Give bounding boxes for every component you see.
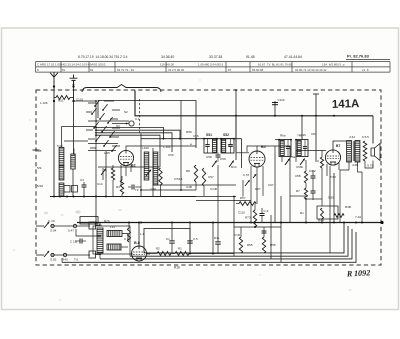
svg-text:L.106: L.106 — [40, 101, 48, 105]
filter capacitor C1 — [169, 240, 175, 242]
svg-text:T2: T2 — [135, 188, 139, 192]
grid resistor R68 vertical — [320, 157, 323, 168]
loop antenna frame upper — [76, 229, 101, 236]
svg-text:S51: S51 — [206, 133, 212, 137]
wire x96 column — [95, 101, 97, 197]
svg-text:C81: C81 — [311, 132, 317, 136]
svg-text:21 8: 21 8 — [362, 68, 369, 72]
long vertical wire x141 — [140, 134, 142, 197]
wire x316 feed — [315, 94, 317, 160]
osc trimmer C57 — [146, 170, 151, 176]
switch wiring stubs — [86, 103, 96, 148]
wire x290 column — [289, 152, 291, 196]
capacitor C11L — [215, 241, 221, 243]
svg-text:Rn: Rn — [300, 211, 304, 215]
return wire loop 2 — [130, 226, 348, 256]
svg-text:C119: C119 — [278, 98, 285, 102]
svg-text:C020: C020 — [72, 148, 76, 155]
svg-text:C.9: C.9 — [264, 209, 269, 213]
IF tank S51 winding — [213, 139, 217, 152]
svg-text:B7: B7 — [336, 144, 340, 148]
svg-text:R57: R57 — [240, 196, 246, 200]
tube B8 envelope — [132, 246, 147, 261]
resistor R73 vertical — [253, 210, 256, 227]
IF tank S51 capacitor — [205, 144, 210, 146]
wire fuse lower to transformer — [96, 254, 102, 256]
capacitor C83 — [311, 190, 316, 192]
svg-text:33.37.38: 33.37.38 — [209, 55, 222, 59]
cathode bus y206 — [250, 200, 252, 206]
svg-text:Pr. 82.76.83: Pr. 82.76.83 — [347, 54, 370, 59]
svg-text:R44: R44 — [318, 219, 324, 223]
svg-text:R55: R55 — [247, 243, 253, 247]
svg-text:C/82: C/82 — [309, 169, 316, 173]
detector load wire — [289, 196, 291, 223]
wire x229 short — [228, 230, 230, 254]
wire B8 anode to rail — [138, 223, 140, 248]
svg-text:L11: L11 — [110, 225, 115, 229]
mains filter capacitor C10 box — [80, 217, 98, 225]
return wire loop 3 — [100, 229, 352, 259]
speaker — [371, 144, 380, 161]
IF tank 2b box — [296, 140, 308, 157]
detector output wire — [275, 146, 290, 152]
IF tank 2a box — [279, 140, 291, 157]
svg-text:R4: R4 — [116, 185, 120, 189]
wire antenna column down-left — [53, 101, 55, 197]
choke L12 with core — [107, 244, 121, 250]
wire grid feed y101 — [74, 100, 97, 102]
wire under bus — [130, 196, 196, 198]
svg-text:C14: C14 — [97, 182, 103, 186]
capacitor C58b — [262, 230, 267, 232]
wire to padder — [112, 123, 129, 125]
B5 grid wire — [236, 152, 249, 154]
wire under L106 — [72, 169, 74, 197]
power transformer primary winding — [97, 228, 103, 253]
mains upper lead — [51, 225, 90, 227]
return wire loop 4 — [62, 232, 356, 262]
box under switch — [88, 143, 118, 145]
resistor R58b vertical — [304, 171, 307, 183]
resistor R44 horizontal — [334, 214, 344, 218]
svg-text:S3: S3 — [116, 124, 120, 128]
svg-text:C4: C4 — [80, 178, 84, 182]
aerial coil L103 top — [59, 148, 64, 166]
IFT2 top wire — [275, 139, 279, 141]
heater wires — [122, 234, 128, 241]
wire x218 from IFT area — [217, 165, 219, 230]
svg-text:S52: S52 — [223, 133, 229, 137]
svg-text:5/9: 5/9 — [37, 166, 42, 170]
wire x356 from speaker area — [355, 223, 357, 233]
secondary winding 2 — [363, 141, 367, 161]
wire coil column to switch y141 — [64, 140, 88, 142]
padding capacitor C12 label — [131, 185, 133, 190]
svg-text:119. H0.00: 119. H0.00 — [160, 63, 174, 67]
bottom bus of RF section — [50, 196, 130, 198]
svg-text:S2: S2 — [124, 110, 128, 114]
wire x302 screen feed — [301, 116, 303, 140]
svg-text:B5: B5 — [261, 145, 266, 149]
wire from transformer down — [348, 162, 350, 170]
detector switch arrows — [285, 159, 290, 166]
rail junction dots — [235, 115, 237, 117]
header table rule middle — [36, 66, 391, 68]
wire y121 to padder — [96, 120, 129, 122]
coil L106 — [71, 154, 75, 169]
B5 electrode arrow — [253, 174, 256, 178]
resistor R51 — [56, 96, 70, 100]
fuse box lower — [89, 251, 96, 258]
svg-text:87: 87 — [228, 68, 232, 72]
svg-text:L.1: L.1 — [140, 232, 145, 236]
svg-text:a: a — [190, 142, 192, 146]
B7 plate to transformer — [333, 141, 346, 150]
AVC resistor R8 — [194, 165, 197, 182]
bundle start dots — [95, 127, 97, 129]
svg-text:R2: R2 — [156, 247, 160, 251]
svg-text:C.6: C.6 — [124, 237, 129, 241]
svg-text:C60: C60 — [151, 187, 157, 191]
svg-text:C4B: C4B — [186, 185, 192, 189]
svg-text:R56: R56 — [186, 130, 192, 134]
capacitor C73 — [260, 213, 265, 215]
screen bus horizontal — [141, 189, 196, 191]
resistor R55 vertical — [239, 237, 242, 253]
rail dots — [95, 222, 97, 224]
svg-text:D1L: D1L — [214, 236, 220, 240]
svg-text:R16: R16 — [174, 266, 180, 270]
svg-text:C.57: C.57 — [243, 173, 250, 177]
tube B5 envelope — [249, 151, 265, 167]
svg-text:L.101: L.101 — [163, 145, 171, 149]
svg-text:R 1092: R 1092 — [346, 268, 371, 278]
wire x213 column — [212, 230, 214, 254]
svg-text:R6a: R6a — [280, 134, 286, 138]
choke L11 — [107, 231, 122, 237]
vertical wire x106 — [105, 151, 107, 197]
switch arrows under IFT1 — [212, 161, 217, 168]
mixer plate wire — [126, 146, 196, 150]
svg-text:47.41.44.64: 47.41.44.64 — [284, 55, 302, 59]
wire bundle row 3 — [96, 133, 172, 152]
B7 pin wires — [326, 164, 328, 176]
mains lower lead — [51, 254, 90, 256]
ganged tuning dashed linkage — [139, 99, 141, 133]
grid rail y139 — [141, 138, 242, 140]
B+ rail corner wire — [135, 91, 373, 116]
output transformer secondary — [355, 141, 360, 163]
svg-text:1.09.480 5.04 (83.5: 1.09.480 5.04 (83.5 — [198, 63, 223, 67]
svg-text:C110: C110 — [238, 211, 245, 215]
trimmer box Cb — [72, 186, 78, 193]
svg-text:R7b: R7b — [104, 219, 110, 223]
svg-text:C.1: C.1 — [135, 117, 140, 121]
output transformer primary — [347, 141, 352, 163]
wire x236 down to IF — [235, 116, 237, 160]
svg-text:R4B: R4B — [345, 205, 351, 209]
svg-text:7.46: 7.46 — [300, 133, 306, 137]
wire x275 column — [274, 152, 276, 223]
antenna symbol — [50, 72, 58, 82]
HT filter box — [144, 229, 190, 253]
svg-text:R6: R6 — [315, 159, 319, 163]
vertical wire x271 — [270, 215, 272, 259]
IF tank S52 capacitor — [228, 144, 233, 146]
wire above coil stack — [61, 127, 63, 148]
top stub above B5 — [256, 141, 258, 146]
trimmer C14 oscillator — [101, 169, 106, 175]
HT heavy rail — [77, 222, 382, 224]
svg-text:T.6: T.6 — [74, 258, 78, 262]
svg-text:P6a: P6a — [290, 155, 296, 159]
svg-text:R8: R8 — [186, 169, 190, 173]
svg-text:L100: L100 — [142, 146, 149, 150]
tube B2 envelope — [118, 150, 133, 165]
horizontal wire y227 — [234, 226, 281, 228]
rectifier pin wires — [130, 253, 133, 255]
header table rule top — [36, 61, 391, 63]
long vertical wire x181 — [180, 101, 182, 191]
svg-text:5.50: 5.50 — [330, 175, 336, 179]
svg-text:R40: R40 — [62, 258, 68, 262]
wire x296 drop — [295, 151, 297, 163]
IF feed vertical x241 — [241, 139, 243, 168]
svg-text:C59: C59 — [168, 153, 174, 157]
IF tank corner dots — [203, 138, 205, 140]
svg-text:61.67. 7V. BL.H1 81.79.68: 61.67. 7V. BL.H1 81.79.68 — [258, 63, 292, 67]
svg-text:19A. W2.800 5. p: 19A. W2.800 5. p — [322, 63, 345, 67]
svg-text:R67: R67 — [255, 187, 261, 191]
cathode return wire y167 — [98, 166, 160, 168]
trimmer capacitor C104 — [82, 184, 87, 186]
IF tank 2b capacitor — [303, 146, 307, 148]
oscillator padder circle — [129, 121, 134, 126]
svg-text:C56: C56 — [220, 157, 226, 161]
decoupling capacitor C119 on feed — [274, 101, 276, 116]
svg-text:R1: R1 — [178, 247, 182, 251]
filter capacitor C5 — [187, 240, 193, 242]
wire bundle row 4 — [96, 135, 160, 167]
B5 plate wire — [256, 146, 258, 151]
oscillator coil pack — [144, 152, 149, 180]
return wire loop 1 — [160, 223, 344, 253]
svg-text:5/10: 5/10 — [37, 184, 43, 188]
svg-text:R14: R14 — [231, 165, 237, 169]
heater rail y185 — [153, 184, 236, 186]
grid leak wire — [242, 193, 244, 197]
tube B7 envelope — [325, 150, 340, 165]
svg-text:5.02: 5.02 — [57, 144, 63, 148]
aerial coil L105 bottom — [59, 183, 64, 197]
svg-text:C1R: C1R — [234, 233, 241, 237]
cathode rail y200 — [196, 200, 251, 202]
resistor R7b beside rectifier — [127, 228, 130, 242]
svg-text:C56: C56 — [193, 134, 199, 138]
input terminal tick on border — [33, 149, 40, 151]
svg-text:C56b: C56b — [296, 165, 304, 169]
svg-text:R7a: R7a — [96, 223, 102, 227]
B5 grid top cap loop — [247, 146, 257, 152]
svg-text:141A: 141A — [332, 98, 360, 111]
mains switch S04 upper — [44, 222, 49, 228]
mains switch S02 lower — [44, 251, 49, 257]
tube B2 pin wires — [120, 165, 122, 186]
oscillator coil secondary — [153, 152, 158, 185]
left ends of return wires — [61, 258, 63, 262]
wire x330 column — [329, 166, 331, 253]
svg-text:92.80-71.10 43.43.44.42: 92.80-71.10 43.43.44.42 — [295, 68, 327, 72]
svg-text:C HRD 17.02 1.05 H02 20.14.34.: C HRD 17.02 1.05 H02 20.14.34.0 103 H9A/… — [37, 63, 106, 67]
svg-text:R73: R73 — [245, 216, 251, 220]
IF tank 2a capacitor — [286, 146, 290, 148]
header table column ticks — [36, 62, 391, 73]
svg-text:6.5.5: 6.5.5 — [362, 135, 369, 139]
IF tank S51 box — [204, 139, 217, 154]
svg-text:R7: R7 — [296, 189, 300, 193]
earth column wire — [73, 101, 75, 154]
transformer enclosure box — [93, 226, 130, 254]
IF tank 2b winding — [297, 141, 301, 156]
screen resistor network — [202, 168, 205, 186]
svg-text:81: 81 — [62, 68, 66, 72]
svg-text:34 2 5 96 36: 34 2 5 96 36 — [168, 68, 184, 72]
svg-text:C1: C1 — [166, 237, 170, 241]
resistor R58 vertical — [262, 237, 265, 253]
svg-text:S.02: S.02 — [50, 258, 57, 262]
svg-text:7.4A: 7.4A — [355, 215, 361, 219]
wire x334 column — [333, 173, 335, 223]
svg-text:5.47: 5.47 — [68, 229, 74, 233]
resistor R6 right of coils — [159, 168, 162, 185]
svg-text:C.5: C.5 — [228, 143, 233, 147]
wire coil column to switch y126 — [62, 126, 97, 128]
header table rule bottom — [36, 71, 391, 73]
cathode resistor R4 — [120, 180, 123, 194]
resistor network vertical in box — [321, 208, 324, 219]
svg-text:S.04: S.04 — [50, 229, 57, 233]
svg-text:L/05: L/05 — [104, 151, 110, 155]
svg-text:C58: C58 — [206, 155, 212, 159]
fuse box upper — [89, 222, 96, 229]
vertical wire x281 — [280, 196, 282, 262]
svg-text:C57: C57 — [208, 175, 214, 179]
AVC bus horizontal — [196, 196, 236, 198]
resistor R7 vertical — [304, 188, 307, 199]
wire bundle row 1 — [96, 128, 164, 140]
IF tank S52 box — [221, 139, 234, 154]
svg-text:C/1B: C/1B — [210, 187, 217, 191]
speaker wires — [372, 116, 374, 144]
svg-text:C.10: C.10 — [48, 219, 55, 223]
svg-text:91.48: 91.48 — [246, 55, 255, 59]
chassis dashed border — [36, 90, 381, 265]
svg-text:S.76: S.76 — [367, 164, 374, 168]
svg-text:C.5: C.5 — [193, 237, 198, 241]
ground symbol at input — [70, 75, 78, 85]
transformer core lines — [352, 141, 354, 161]
wire bundle row 2 — [96, 130, 180, 139]
svg-text:5.50: 5.50 — [328, 196, 334, 200]
band switch S1 contact arrows — [91, 100, 117, 152]
svg-text:93 70 73 - 81: 93 70 73 - 81 — [117, 68, 134, 72]
svg-text:65.90.98: 65.90.98 — [252, 68, 264, 72]
scan smudge specks — [13, 59, 392, 301]
overbrace above antenna section — [82, 85, 161, 93]
grid resistor R3 below B2 — [111, 168, 114, 180]
fuse to rail wire — [96, 225, 101, 227]
bias network box — [317, 206, 338, 219]
svg-text:U58: U58 — [295, 174, 301, 178]
junction wires right network — [306, 198, 322, 200]
svg-text:5.79.17.19 14.18.00.34 751 2: 5.79.17.19 14.18.00.34 751 2 3 4 — [78, 55, 128, 59]
vertical wire x234 — [233, 196, 235, 256]
svg-text:R51: R51 — [58, 99, 64, 103]
shield box top wire — [98, 101, 196, 149]
AF coupling wire to B7 grid — [296, 150, 326, 152]
long vertical wire x153 — [152, 148, 154, 197]
wire from ground bus down — [95, 197, 97, 223]
svg-text:4.61: 4.61 — [349, 135, 355, 139]
svg-text:C/51B: C/51B — [174, 177, 182, 181]
IFT2 wires — [281, 157, 283, 163]
wire x236 from chassis top — [235, 90, 237, 152]
svg-text:34.36.40: 34.36.40 — [161, 55, 174, 59]
trimmer box Ca — [64, 186, 70, 193]
svg-text:82: 82 — [90, 68, 94, 72]
IF tank 2a winding — [280, 141, 284, 156]
grid cap C56 — [216, 154, 221, 156]
svg-text:C 111: C 111 — [70, 240, 78, 244]
antenna lead-in wire — [53, 81, 55, 101]
svg-text:C67: C67 — [268, 183, 274, 187]
aerial coil L104 middle — [59, 166, 64, 180]
varcap C57 below B5 — [245, 180, 250, 186]
wire to R2 — [147, 253, 158, 255]
earth wire — [73, 85, 75, 102]
B5 pin wires — [250, 166, 252, 223]
capacitor C82 — [311, 175, 316, 177]
IF tank S52 winding — [222, 139, 226, 152]
